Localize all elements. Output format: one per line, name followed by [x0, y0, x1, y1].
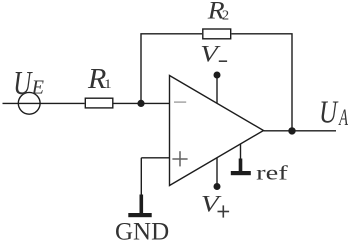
label R2	[207, 0, 225, 24]
op-amp plus input symbol	[172, 151, 187, 166]
svg-text:ref: ref	[256, 162, 288, 184]
pin V+ dot	[214, 183, 221, 190]
node output junction dot	[288, 127, 295, 134]
resistor R2	[203, 29, 231, 39]
resistor R1	[85, 98, 113, 108]
wire R1 to op-amp inverting input	[114, 102, 170, 104]
pin V- stub	[216, 75, 218, 103]
pin V- dot	[214, 72, 221, 79]
pin V+ stub	[216, 158, 218, 187]
wire to GND	[140, 158, 142, 196]
wire feedback left vertical	[141, 34, 202, 104]
wire feedback right vertical to output node	[232, 34, 293, 131]
svg-text:A: A	[338, 106, 349, 131]
svg-text:GND: GND	[115, 218, 169, 240]
ground ref thick stem	[239, 159, 243, 172]
ground GND thick stem	[140, 195, 144, 214]
svg-text:U: U	[319, 96, 338, 130]
node A junction dot (inverting input)	[137, 100, 144, 107]
voltage source U_E	[18, 92, 40, 114]
svg-text:V: V	[201, 190, 222, 217]
label V-	[200, 41, 221, 67]
label U_A	[319, 96, 338, 130]
label R1	[87, 64, 107, 95]
label ref	[256, 162, 288, 184]
svg-text:V: V	[200, 41, 221, 67]
svg-text:E: E	[31, 76, 44, 98]
label U_E	[13, 64, 33, 102]
svg-text:1: 1	[104, 77, 112, 92]
wire input from left edge through source to R1	[3, 102, 85, 104]
svg-text:2: 2	[222, 8, 229, 24]
op-amp minus input symbol	[174, 101, 186, 103]
wire output	[264, 130, 337, 132]
svg-text:U: U	[13, 64, 33, 102]
ground ref stub	[240, 144, 242, 159]
op-amp U1	[170, 76, 264, 186]
label V+	[201, 190, 222, 217]
ground ref bar	[231, 171, 251, 175]
wire non-inverting input	[141, 157, 169, 159]
ground GND bar	[128, 213, 151, 217]
